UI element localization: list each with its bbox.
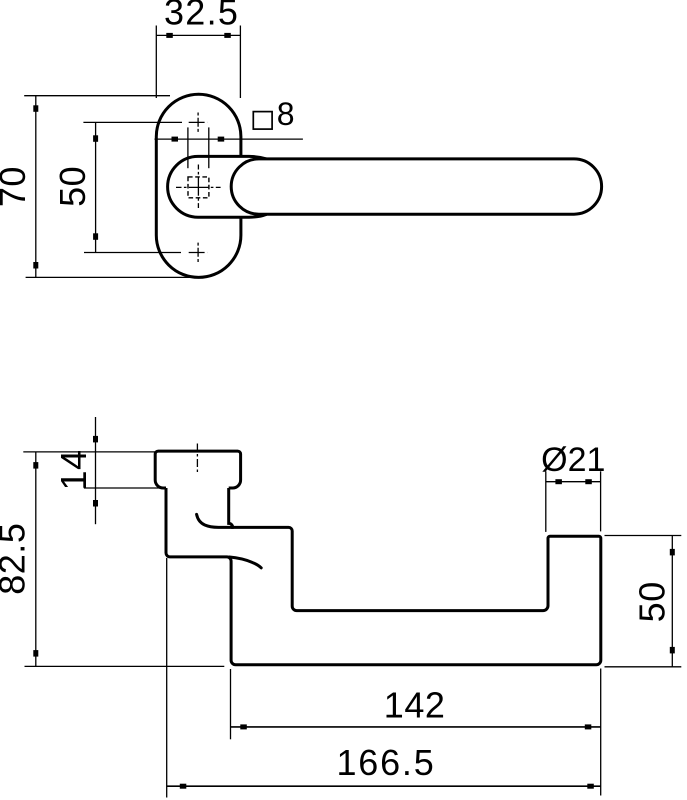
svg-text:166.5: 166.5 — [336, 742, 435, 783]
svg-text:70: 70 — [0, 166, 33, 207]
dim 82.5 terminator bottom — [33, 650, 38, 657]
dim 70 terminator top — [33, 105, 38, 112]
dim 14 terminator top (outside) — [93, 436, 98, 443]
dim O21 terminator left — [555, 479, 562, 484]
svg-text:32.5: 32.5 — [164, 0, 239, 32]
spindle center cross lines — [176, 165, 221, 209]
dim square-8 terminator left (outside) — [172, 137, 179, 142]
dim 142 dimension line — [231, 726, 601, 728]
dim square-8 extension line right — [208, 127, 210, 168]
dim 14 extension line bottom — [84, 487, 164, 489]
svg-text:142: 142 — [384, 684, 446, 725]
rosette plate outline (oval rose) — [156, 94, 241, 277]
dim 32.5 extension line right — [239, 26, 241, 99]
dim 50 (side) extension line bottom — [605, 666, 682, 668]
dim O21 terminator right — [585, 479, 592, 484]
dim 70 extension line top — [24, 95, 170, 97]
rose center line (dash-dot) — [196, 444, 198, 475]
dim 142 extension line left — [230, 669, 232, 739]
dim 50 terminator bottom — [93, 233, 98, 240]
lever neck (plan view) — [168, 156, 267, 217]
tangent transition curve lower — [230, 557, 262, 568]
dim 50 (side) extension line top — [605, 535, 682, 537]
svg-text:50: 50 — [52, 166, 93, 207]
dim 32.5 dimension line — [156, 34, 240, 36]
dim 142/166.5 shared right extension line — [600, 669, 602, 796]
dim 32.5 terminator right — [224, 33, 231, 38]
handle profile outline — [166, 488, 601, 665]
dim 50 extension line bottom — [84, 252, 181, 254]
tangent transition curve upper — [197, 514, 233, 527]
svg-text:82.5: 82.5 — [0, 523, 33, 595]
dim O21 dimension line — [546, 481, 601, 483]
dim 14 extension line top (shared with 82.5) — [23, 451, 155, 453]
spindle square hole (dashed) — [188, 177, 209, 198]
dim 142 terminator left — [240, 724, 247, 729]
dim 70 extension line bottom — [26, 276, 190, 278]
dim 82.5 extension line bottom — [25, 665, 225, 667]
dim O21 extension line left — [545, 471, 547, 532]
dim 82.5 dimension line — [35, 452, 37, 667]
top screw hole center cross — [189, 113, 208, 132]
dim 32.5 extension line left — [155, 26, 157, 99]
dim square-8 extension line left — [187, 127, 189, 168]
dim square-8 terminator right (outside) — [218, 137, 225, 142]
svg-text:50: 50 — [631, 581, 672, 622]
dim 166.5 dimension line — [167, 785, 601, 787]
svg-text:8: 8 — [277, 96, 295, 132]
dim 70 dimension line — [35, 96, 37, 278]
dim 32.5 terminator left — [166, 33, 173, 38]
dim 166.5 terminator right — [587, 784, 594, 789]
dim 50 (side) terminator top — [670, 549, 675, 556]
dim 50 dimension line — [95, 122, 97, 252]
svg-text:14: 14 — [53, 449, 94, 490]
dim 166.5 terminator left — [180, 784, 187, 789]
dim 50 (side) dimension line — [671, 536, 673, 667]
dim 50 extension line top — [83, 121, 182, 123]
dim 142 terminator right — [585, 724, 592, 729]
bottom screw hole center cross — [189, 243, 208, 262]
dim 82.5 terminator top — [33, 462, 38, 469]
lever grip bar (plan view) — [231, 159, 601, 214]
dim 50 (side) terminator bottom — [670, 647, 675, 654]
dim 14 terminator bottom (outside) — [93, 500, 98, 507]
dim 70 terminator bottom — [33, 262, 38, 269]
svg-text:Ø21: Ø21 — [541, 441, 605, 479]
rosette side-view cap — [155, 451, 240, 488]
square symbol of dim text — [253, 112, 272, 130]
dim 50 terminator top — [93, 135, 98, 142]
dim 166.5 extension line left — [166, 558, 168, 798]
dim 14 dimension line — [95, 417, 97, 524]
dim O21 extension line right — [600, 471, 602, 531]
dim square-8 dimension/leader line — [155, 138, 303, 140]
